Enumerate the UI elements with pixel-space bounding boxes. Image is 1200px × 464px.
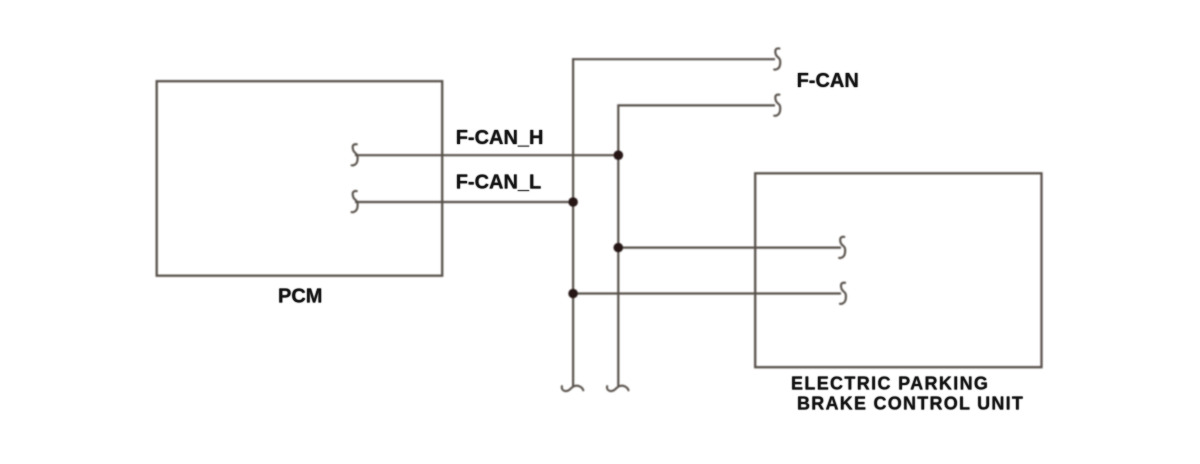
- svg-text:BRAKE CONTROL UNIT: BRAKE CONTROL UNIT: [797, 393, 1024, 413]
- junction dot F-CAN_H on bus 2: [614, 150, 624, 160]
- PCM box: [157, 81, 443, 276]
- ELECTRIC PARKING BRAKE CONTROL UNIT label: [791, 373, 1024, 413]
- F-CAN label: [797, 70, 859, 92]
- svg-text:F-CAN: F-CAN: [797, 70, 859, 92]
- wire F-CAN_H from PCM to bus 2: [355, 154, 618, 156]
- ELECTRIC PARKING BRAKE CONTROL UNIT box: [755, 173, 1041, 367]
- PCM label: [278, 286, 322, 308]
- svg-text:PCM: PCM: [278, 286, 322, 308]
- wire from bus 2 to brake control unit (upper): [618, 247, 841, 249]
- wire break squiggle at lower brake wire end: [840, 283, 846, 304]
- wire F-CAN_L from PCM to bus 1: [355, 201, 573, 203]
- junction dot F-CAN_L on bus 1: [568, 197, 578, 207]
- F-CAN_L label: [456, 172, 542, 194]
- wire break squiggle at upper brake wire end: [839, 237, 845, 258]
- wire break squiggle at F-CAN_H start: [352, 144, 358, 165]
- junction dot upper brake wire on bus 2: [614, 243, 624, 253]
- wire break squiggle at bus 2 top right end: [774, 95, 780, 116]
- wire break squiggle at bus 1 bottom end: [562, 386, 584, 391]
- junction dot lower brake wire on bus 1: [568, 289, 578, 299]
- wire break squiggle at F-CAN_L start: [352, 191, 358, 212]
- wire from bus 1 to brake control unit (lower): [573, 292, 841, 294]
- svg-text:F-CAN_L: F-CAN_L: [456, 172, 542, 194]
- bus 1 vertical wire with top branch to F-CAN: [573, 59, 775, 386]
- svg-text:F-CAN_H: F-CAN_H: [456, 127, 544, 149]
- wire break squiggle at bus 1 top right end: [774, 48, 780, 69]
- F-CAN_H label: [456, 127, 544, 149]
- bus 2 vertical wire with top branch to F-CAN: [618, 105, 775, 386]
- svg-text:ELECTRIC PARKING: ELECTRIC PARKING: [791, 373, 989, 393]
- wire break squiggle at bus 2 bottom end: [607, 386, 629, 391]
